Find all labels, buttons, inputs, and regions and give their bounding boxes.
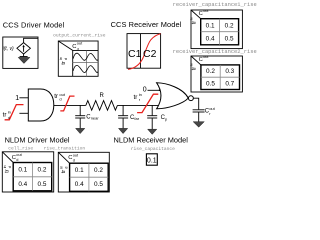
- svg-text:d: d: [63, 167, 68, 169]
- svg-text:output_current_rise: output_current_rise: [53, 33, 106, 39]
- svg-text:out: out: [77, 41, 83, 46]
- svg-text:tr: tr: [191, 21, 197, 25]
- svg-text:d: d: [73, 157, 75, 162]
- svg-text:C2: C2: [143, 48, 157, 60]
- svg-text:0.2: 0.2: [225, 22, 234, 29]
- svg-text:0.3: 0.3: [225, 68, 234, 75]
- svg-text:0.4: 0.4: [206, 35, 215, 42]
- svg-text:d: d: [59, 97, 61, 102]
- svg-text:near: near: [91, 115, 100, 120]
- svg-text:0.7: 0.7: [225, 81, 234, 88]
- svg-text:d: d: [16, 157, 18, 162]
- svg-text:cell_rise: cell_rise: [8, 146, 33, 152]
- svg-text:0.2: 0.2: [94, 167, 103, 174]
- svg-text:receiver_capacitance2_rise: receiver_capacitance2_rise: [173, 49, 257, 55]
- svg-text:d: d: [63, 58, 68, 60]
- svg-text:tr: tr: [61, 61, 67, 65]
- svg-text:out: out: [203, 54, 209, 59]
- svg-text:C1: C1: [128, 48, 142, 60]
- svg-text:rise_transition: rise_transition: [44, 146, 86, 152]
- svg-text:in: in: [189, 63, 194, 66]
- svg-text:tr: tr: [3, 112, 7, 119]
- svg-text:tr: tr: [61, 170, 67, 174]
- svg-text:tr: tr: [191, 67, 197, 71]
- svg-text:0.2: 0.2: [38, 167, 47, 174]
- svg-text:far: far: [134, 116, 139, 121]
- svg-text:0.5: 0.5: [225, 35, 234, 42]
- svg-text:in: in: [189, 17, 194, 20]
- svg-text:d: d: [7, 166, 12, 168]
- svg-text:in: in: [8, 109, 11, 114]
- svg-text:R: R: [100, 93, 105, 99]
- svg-text:0.1: 0.1: [147, 158, 157, 165]
- svg-text:0.2: 0.2: [206, 68, 215, 75]
- svg-text:0.5: 0.5: [206, 81, 215, 88]
- svg-text:d: d: [77, 46, 79, 51]
- svg-text:out: out: [203, 8, 209, 13]
- svg-text:0.5: 0.5: [38, 181, 47, 188]
- svg-text:NLDM Receiver Model: NLDM Receiver Model: [114, 135, 189, 144]
- svg-text:tr: tr: [54, 93, 58, 100]
- svg-text:0.1: 0.1: [18, 167, 27, 174]
- svg-text:0.4: 0.4: [18, 181, 27, 188]
- svg-text:i(t, v): i(t, v): [3, 46, 14, 52]
- svg-text:0.1: 0.1: [75, 167, 84, 174]
- svg-text:0: 0: [143, 87, 147, 94]
- svg-text:0.1: 0.1: [206, 22, 215, 29]
- svg-text:d: d: [8, 115, 10, 120]
- svg-text:1: 1: [15, 95, 19, 102]
- svg-text:NLDM Driver Model: NLDM Driver Model: [5, 135, 70, 144]
- svg-text:CCS Receiver Model: CCS Receiver Model: [111, 20, 182, 29]
- svg-text:CCS Driver Model: CCS Driver Model: [3, 20, 65, 29]
- svg-text:tr: tr: [5, 169, 11, 173]
- svg-text:0.4: 0.4: [75, 181, 84, 188]
- svg-text:rise_capacitance: rise_capacitance: [131, 146, 175, 152]
- svg-text:tr: tr: [134, 94, 138, 101]
- svg-text:receiver_capacitance1_rise: receiver_capacitance1_rise: [173, 2, 257, 8]
- svg-text:0.5: 0.5: [94, 181, 103, 188]
